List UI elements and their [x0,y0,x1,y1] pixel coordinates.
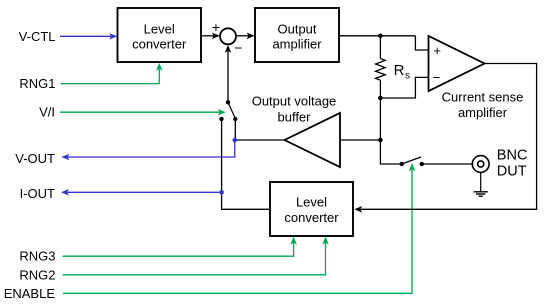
wire B1 to summing junction [201,33,220,40]
label BNC DUT [497,148,528,180]
wire summing junction to B2 [236,33,255,40]
wire to + input of current sense amp [415,36,428,50]
box U2 Output amplifier [255,8,339,62]
node D blue junction dot [233,138,238,143]
wire V-CTL (blue) [60,33,117,40]
resistor Rs [376,36,386,98]
svg-text:buffer: buffer [277,110,311,125]
wire SW1 right contact down to node D [234,119,236,140]
wire V/I (green) [60,109,226,116]
svg-text:+: + [212,20,220,35]
svg-text:RNG2: RNG2 [19,267,55,282]
ground [474,172,488,196]
wire to - input of current sense amp [380,77,428,98]
svg-text:converter: converter [284,210,339,225]
svg-text:amplifier: amplifier [272,37,322,52]
op-amp U5 output voltage buffer [252,94,340,168]
svg-text:V/I: V/I [39,105,55,120]
svg-text:BNC: BNC [497,148,528,164]
svg-text:Output: Output [277,22,316,37]
svg-text:Level: Level [296,194,327,209]
label Rs [394,62,410,82]
svg-text:amplifier: amplifier [458,105,508,120]
wire SW1 common up to summing junction (feedback) [225,45,232,102]
node A junction dot [378,34,383,39]
svg-text:V-OUT: V-OUT [15,151,55,166]
wire node B down to buffer input node [379,98,381,140]
svg-text:+: + [433,43,441,58]
svg-text:DUT: DUT [497,164,527,180]
wire ENABLE (green) [63,163,415,293]
svg-text:Current sense: Current sense [442,90,524,105]
node C junction dot (buffer input) [378,138,383,143]
svg-text:V-CTL: V-CTL [19,29,56,44]
op-amp U3 current sense amplifier [429,36,524,120]
switch SW2 (output enable) [400,157,424,166]
box U4 Level converter (bottom) [270,182,353,236]
node E blue junction dot (I-OUT tap) [219,190,224,195]
switch SW1 V/I select [219,100,237,121]
node B junction dot [378,96,383,101]
BNC connector J1 [472,156,489,173]
wire B2 output to node A [339,35,415,37]
wire buffer input from node C [340,139,380,141]
svg-text:R: R [394,62,405,79]
svg-text:RNG3: RNG3 [19,249,55,264]
svg-text:ENABLE: ENABLE [4,286,56,301]
summing junction S1 [212,20,243,56]
wire V-OUT (blue) [61,140,234,160]
wire node C down and to switch SW2 [380,140,401,164]
svg-text:s: s [405,71,410,82]
svg-text:Level: Level [144,22,175,37]
box U1 Level converter (top) [118,8,202,62]
wire buffer output to node D [235,139,285,141]
wire I-OUT (blue) [61,189,222,196]
wire current sense amp output to right side [359,64,537,210]
svg-text:RNG1: RNG1 [19,76,55,91]
wire RNG2 (green) [63,237,329,275]
wire RNG3 (green) [63,237,297,257]
svg-text:−: − [433,70,441,85]
svg-text:Output voltage: Output voltage [252,94,337,109]
svg-text:converter: converter [132,37,187,52]
svg-text:I-OUT: I-OUT [20,186,55,201]
wire SW1 left contact down to B3 output [222,119,270,209]
wire RNG1 (green) [61,63,163,84]
svg-text:−: − [235,41,243,56]
wire SW2 to BNC [422,163,473,165]
arrow into B3 right edge [354,206,362,213]
